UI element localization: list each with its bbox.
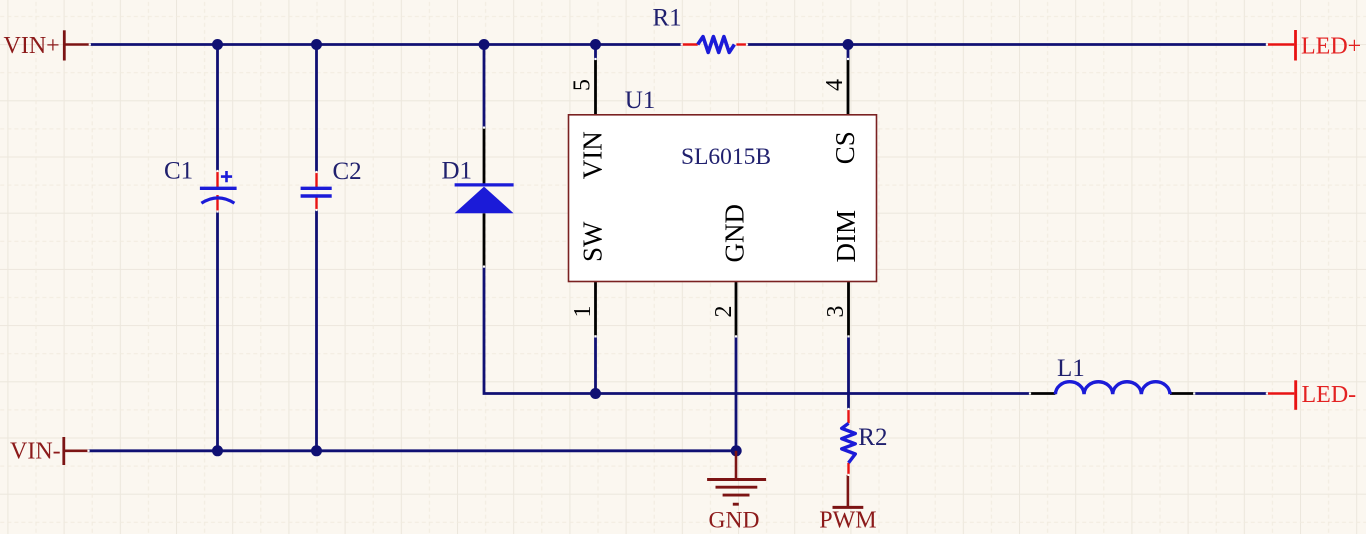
svg-text:LED+: LED+ xyxy=(1301,34,1361,60)
svg-text:GND: GND xyxy=(719,204,749,263)
svg-text:C1: C1 xyxy=(164,158,193,185)
svg-text:4: 4 xyxy=(822,79,848,91)
svg-text:VIN+: VIN+ xyxy=(4,33,60,59)
svg-text:1: 1 xyxy=(570,306,596,318)
svg-text:CS: CS xyxy=(830,131,860,164)
svg-text:2: 2 xyxy=(711,306,737,318)
svg-text:GND: GND xyxy=(709,508,760,534)
svg-text:3: 3 xyxy=(823,306,849,318)
svg-text:PWM: PWM xyxy=(819,508,876,534)
svg-text:SL6015B: SL6015B xyxy=(681,144,771,170)
svg-text:R2: R2 xyxy=(858,424,887,451)
svg-text:R1: R1 xyxy=(653,4,682,31)
svg-text:LED-: LED- xyxy=(1302,382,1357,408)
svg-text:VIN-: VIN- xyxy=(10,439,61,465)
svg-text:SW: SW xyxy=(578,221,608,262)
svg-text:DIM: DIM xyxy=(831,210,861,263)
svg-text:5: 5 xyxy=(570,79,596,91)
svg-text:L1: L1 xyxy=(1057,355,1085,382)
svg-text:D1: D1 xyxy=(442,158,473,185)
svg-text:U1: U1 xyxy=(625,87,656,114)
svg-text:C2: C2 xyxy=(333,158,362,185)
svg-text:VIN: VIN xyxy=(578,131,608,179)
